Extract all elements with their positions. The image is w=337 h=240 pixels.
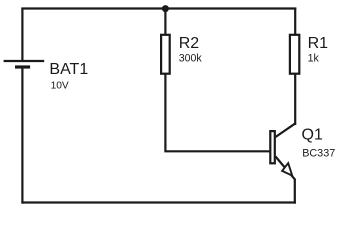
svg-text:Q1: Q1 — [302, 126, 323, 143]
svg-text:10V: 10V — [51, 81, 69, 92]
resistor R1 — [290, 35, 299, 74]
wire R1 top lead — [294, 8, 296, 36]
node junction dot at top of R2 — [162, 5, 169, 12]
transistor Q1 — [270, 124, 295, 180]
svg-text:BC337: BC337 — [302, 147, 335, 159]
battery BAT1 — [4, 61, 45, 67]
wire R2 bottom lead to base — [165, 73, 269, 151]
svg-text:300k: 300k — [179, 53, 203, 65]
wire R1 bottom lead (collector vertical) — [294, 73, 296, 125]
svg-text:R1: R1 — [308, 35, 329, 52]
wire emitter lead — [294, 179, 296, 204]
resistor R2 — [161, 35, 170, 74]
wire R2 top lead — [164, 9, 166, 36]
wire top rail (battery + to R1) — [21, 7, 296, 9]
svg-text:1k: 1k — [308, 53, 320, 65]
wire battery positive lead — [21, 8, 23, 62]
wire bottom rail (battery - to emitter) — [21, 201, 296, 203]
svg-text:BAT1: BAT1 — [49, 61, 88, 78]
svg-text:R2: R2 — [179, 35, 200, 52]
wire battery negative lead — [21, 67, 23, 204]
